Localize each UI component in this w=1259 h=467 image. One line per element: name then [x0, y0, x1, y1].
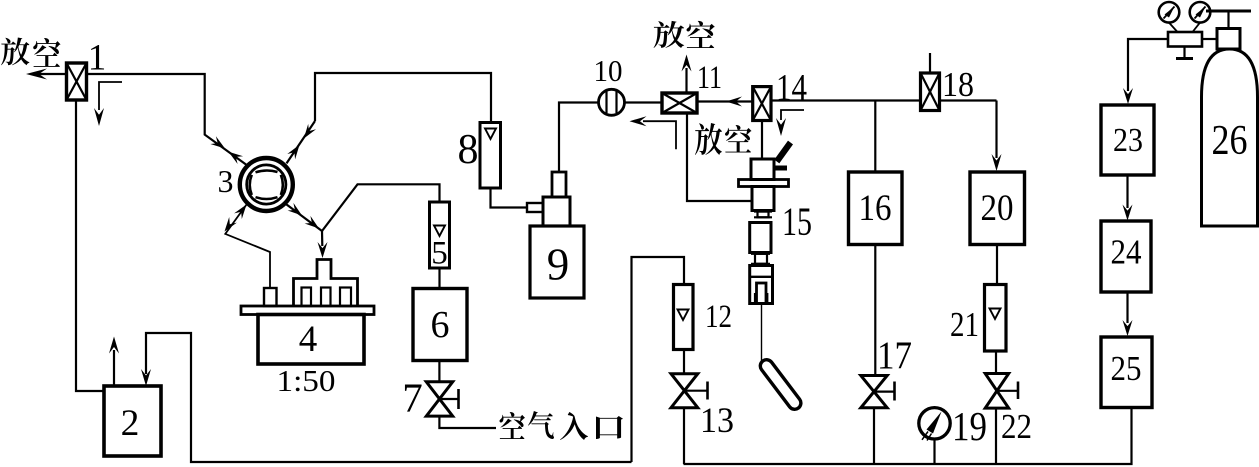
wire valve 22 to bus	[995, 408, 997, 464]
wire vent line from valve 1 with left arrow	[32, 73, 67, 75]
wire from valve 1 down to absorber 2	[76, 100, 104, 391]
flow arrows on lower-right diagonal	[288, 203, 302, 216]
flask 4 manifold joint stubs	[302, 288, 312, 307]
svg-text:15: 15	[782, 199, 812, 244]
wire regulator to cylinder valve	[1202, 38, 1217, 40]
wire rotameter 5 to buffer 6	[438, 268, 440, 289]
text 放空 right of 11	[695, 123, 722, 155]
wire buffer 6 to valve 7	[438, 361, 440, 382]
svg-text:4: 4	[299, 319, 318, 360]
rotameter 5 body	[430, 202, 450, 268]
flame arrestor 1 (X-box)	[67, 63, 87, 100]
wire 20 to rotameter 21	[996, 245, 998, 285]
wire pump 9 to sight glass 10	[559, 103, 599, 173]
burner 15 nozzle	[757, 283, 767, 304]
pressure regulator body	[1168, 32, 1202, 47]
svg-text:19: 19	[952, 403, 987, 449]
vent up arrow above 11	[685, 68, 687, 93]
wire 14 to 11 with left arrow	[697, 100, 752, 102]
text 空气入口 air inlet	[499, 412, 525, 439]
svg-text:24: 24	[1111, 233, 1142, 272]
wire lower-left diagonal from valve 3 to flask 4 left neck	[225, 204, 270, 288]
svg-text:26: 26	[1212, 118, 1248, 164]
rotameter 8 body	[480, 123, 501, 189]
svg-text:6: 6	[431, 304, 450, 346]
pressure gauge 19	[919, 408, 950, 439]
svg-text:2: 2	[121, 403, 140, 444]
wire bus junction up to rotameter 12	[632, 257, 685, 462]
burner 15 head	[751, 159, 774, 180]
wire rotameter 12 to valve 13	[683, 350, 685, 374]
burner 15 joint 1	[754, 210, 772, 212]
4-way valve 3 inner circle	[247, 165, 286, 204]
svg-text:21: 21	[950, 305, 979, 344]
burner 15 upper body	[752, 187, 774, 211]
rotameter 12 body	[674, 285, 694, 350]
svg-text:1: 1	[88, 38, 107, 79]
rotameter 21 body	[985, 285, 1007, 352]
wire diagonal from corner to 4-way valve 3	[287, 121, 316, 163]
burner 15 lower body	[750, 266, 773, 304]
wire valve 13 to right bus	[683, 408, 685, 464]
main gas line 14 to 18 to 20	[771, 99, 921, 101]
regulator gauge left	[1159, 2, 1180, 23]
sight glass 10	[599, 89, 625, 115]
needle valve 13	[671, 374, 698, 391]
wire into absorber 2 from bottom bus	[146, 333, 632, 462]
gas cylinder 26 valve stem	[1227, 11, 1229, 29]
sample tube (tilted capsule)	[758, 357, 804, 412]
rotameter 21 float	[990, 309, 1001, 320]
text 放空 top-left	[1, 38, 29, 66]
flow direction elbow arrow near 1	[99, 82, 122, 110]
regulator output wire with arrow into 23	[1128, 39, 1168, 91]
drier 25	[1101, 337, 1152, 408]
gauge 19 stem	[933, 439, 935, 464]
svg-text:18: 18	[942, 65, 974, 104]
svg-text:25: 25	[1111, 349, 1142, 388]
right bottom bus	[684, 408, 1132, 465]
burner 15 joint 2	[751, 253, 770, 255]
svg-text:7: 7	[402, 375, 423, 421]
4-way reversing valve 3 outer ring	[240, 158, 293, 211]
svg-text:9: 9	[547, 240, 570, 290]
wire rotameter 8 to pump 9 inlet	[491, 188, 528, 208]
regulator adjusting screw	[1183, 47, 1185, 59]
svg-text:12: 12	[705, 299, 732, 335]
svg-text:20: 20	[981, 188, 1014, 229]
drier 24	[1101, 221, 1151, 292]
burner 15 mid body	[750, 223, 771, 253]
wire valve 17 to bus	[873, 408, 875, 464]
wire 21 to valve 22	[995, 351, 997, 374]
arrow 23 to 24	[1126, 175, 1128, 208]
wire from valve 1 right to 4-way valve 3	[87, 74, 248, 165]
4-way valve 3 rotor arcs	[256, 170, 278, 172]
svg-text:23: 23	[1113, 122, 1143, 159]
svg-text:17: 17	[877, 334, 912, 377]
absorber 2 body	[104, 386, 161, 456]
flow arrows on lower-left diagonal	[234, 205, 246, 220]
flow down-arrow into absorber 2	[141, 369, 151, 386]
svg-text:16: 16	[859, 188, 892, 229]
gas cylinder 26 body	[1202, 49, 1258, 226]
branch down to saturator 16	[874, 101, 876, 173]
svg-text:8: 8	[458, 127, 479, 173]
arrow 24 to 25	[1126, 292, 1128, 323]
valve 14 (X-box)	[753, 87, 771, 121]
reaction flask 4 body	[258, 315, 364, 365]
svg-text:14: 14	[776, 67, 807, 109]
pump 9 neck	[543, 197, 570, 226]
svg-text:5: 5	[431, 236, 448, 272]
svg-text:22: 22	[1001, 407, 1032, 446]
flask 4 center manifold	[294, 260, 358, 307]
wire 16 to valve 17	[874, 245, 876, 376]
svg-text:10: 10	[594, 53, 623, 88]
wire from rotameter 5 to junction above flask 4	[322, 184, 440, 231]
pump 9 tube	[552, 172, 566, 197]
gauge links	[1169, 23, 1178, 32]
wire lower-right diagonal from valve 3 to junction	[285, 204, 322, 231]
flow arrows on upper-left diagonal	[210, 136, 225, 148]
flask 4 lid	[241, 306, 374, 315]
pump 9 inlet stub	[527, 203, 543, 212]
wire sight glass 10 to solenoid valve 11	[625, 101, 663, 103]
air inlet wire below valve 7	[439, 416, 496, 428]
flow elbow arrow below 11	[643, 121, 676, 149]
rotameter 12 float	[678, 310, 689, 321]
valve 18 (X-box)	[921, 73, 940, 111]
regulator gauge right	[1190, 2, 1211, 23]
valve 18 stub up	[929, 53, 931, 73]
svg-text:1:50: 1:50	[277, 363, 336, 398]
rotameter 5 float	[434, 226, 445, 237]
flow arrows on upper-right diagonal	[304, 124, 316, 139]
thermocouple wire below burner 15	[761, 304, 763, 369]
svg-text:11: 11	[697, 60, 722, 96]
wire top horizontal to rotameter 8	[315, 73, 491, 123]
gas cylinder 26 neck	[1217, 29, 1240, 50]
vapor up-arrow from absorber 2	[113, 350, 115, 386]
flow elbow arrow below 14	[781, 110, 804, 120]
burner 15 flange	[739, 180, 789, 187]
saturator 16	[849, 172, 903, 245]
flask 4 left neck stub	[264, 288, 277, 306]
solenoid vent valve 11 (X-box)	[662, 93, 697, 113]
needle valve 17	[861, 376, 887, 392]
drier 23	[1101, 105, 1154, 175]
needle valve 22	[985, 374, 1009, 391]
svg-text:3: 3	[218, 163, 234, 199]
wire 14 down to burner 15 head	[761, 121, 763, 160]
humidifier 20	[970, 172, 1025, 245]
buffer vessel 6	[413, 289, 467, 361]
feed arrow into flask 4 center neck	[321, 231, 323, 246]
svg-text:13: 13	[700, 400, 734, 440]
needle valve 7	[426, 382, 452, 399]
wire 11 down to burner 15	[687, 113, 752, 201]
text 放空 above 11	[654, 21, 685, 48]
rotameter 8 float	[485, 129, 496, 140]
burner 15 igniter lever	[777, 143, 791, 162]
circulating pump 9 body	[530, 226, 584, 298]
